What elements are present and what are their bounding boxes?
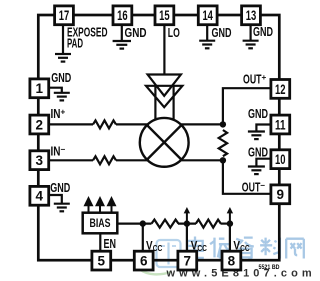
pin 9 <box>271 185 290 204</box>
wire mixer out bottom <box>180 159 223 161</box>
svg-text:14: 14 <box>202 8 213 23</box>
ground pin 4 <box>49 195 70 211</box>
bias arrow 3 <box>111 205 113 213</box>
op-amp LO buffer (double triangle) <box>146 75 182 121</box>
BIAS box <box>83 213 118 234</box>
svg-text:8: 8 <box>228 254 236 269</box>
ground pin 11 <box>248 125 271 140</box>
wire IN- to mixer <box>116 159 149 161</box>
resistor R4 <box>152 220 179 228</box>
pin 13 <box>242 6 261 25</box>
wire riser pin 8 <box>229 224 231 252</box>
watermark book logo <box>140 240 181 274</box>
svg-text:7: 7 <box>184 254 192 269</box>
svg-text:4: 4 <box>36 189 44 204</box>
svg-text:EN: EN <box>104 237 117 251</box>
svg-text:GND: GND <box>51 71 71 85</box>
bias arrow 1 <box>85 198 115 212</box>
svg-text:GND: GND <box>253 25 273 39</box>
wire OUT+ to pin 12 <box>223 88 271 124</box>
arrow up at pin7 node <box>186 213 188 224</box>
svg-text:16: 16 <box>117 8 128 23</box>
svg-text:6: 6 <box>140 254 148 269</box>
wire bias rail <box>117 223 151 225</box>
wire IN+ to mixer <box>116 123 149 125</box>
ground pin 16 <box>113 25 131 49</box>
pin 3 <box>30 151 49 170</box>
svg-text:12: 12 <box>275 82 286 97</box>
pin 1 <box>30 79 49 98</box>
wire mixer out top <box>180 123 223 125</box>
svg-text:GND: GND <box>125 26 147 40</box>
pin 7 <box>178 251 197 270</box>
ground pin 14 <box>199 25 215 49</box>
wire riser pin 6 <box>142 224 144 252</box>
pin 12 <box>271 80 290 99</box>
wire LO from pin 15 <box>163 25 165 75</box>
wire riser pin 7 <box>186 224 188 252</box>
resistor R3 load (vertical) <box>219 130 227 156</box>
wire IN- from pin 3 <box>49 159 93 161</box>
svg-text:GND: GND <box>248 145 268 159</box>
svg-text:1: 1 <box>36 81 44 96</box>
pin 4 <box>30 186 49 205</box>
pin 16 <box>113 6 132 25</box>
wire rail mid <box>178 223 196 225</box>
pin 17 <box>55 6 74 25</box>
svg-text:GND: GND <box>50 181 70 195</box>
watermark chinese characters (drawn as paths) <box>187 237 303 261</box>
ground pin 1 <box>49 88 70 101</box>
ground pin 13 <box>243 25 259 49</box>
svg-text:11: 11 <box>275 117 286 132</box>
svg-text:GND: GND <box>212 26 232 40</box>
pin 15 <box>155 6 174 25</box>
node junction pin7 <box>184 220 190 226</box>
svg-text:5: 5 <box>98 254 106 269</box>
resistor R2 on IN- <box>93 156 116 164</box>
svg-text:BIAS: BIAS <box>90 218 111 230</box>
resistor R5 <box>196 220 221 228</box>
wire OUT- to pin 9 <box>223 160 271 194</box>
svg-text:13: 13 <box>246 8 257 23</box>
svg-text:PAD: PAD <box>67 37 83 51</box>
pin 11 <box>271 115 290 134</box>
svg-text:GND: GND <box>248 107 268 121</box>
svg-text:5521 BD: 5521 BD <box>259 264 280 271</box>
resistor R1 on IN+ <box>93 120 116 128</box>
pin 5 <box>92 251 111 270</box>
IC package outline <box>38 15 279 260</box>
svg-text:17: 17 <box>59 8 70 23</box>
svg-text:9: 9 <box>277 187 285 202</box>
svg-text:15: 15 <box>159 8 170 23</box>
node junction pin8 <box>227 220 233 226</box>
pin 6 <box>134 251 153 270</box>
pin 2 <box>30 115 49 134</box>
wire IN+ from pin 2 <box>49 123 93 125</box>
mixer U1 circle with X <box>140 118 189 167</box>
bias arrow 2 <box>99 205 101 213</box>
node junction bottom <box>220 157 226 163</box>
arrow up at pin8 node <box>229 213 231 224</box>
node junction pin6 <box>140 220 146 226</box>
pin 8 <box>222 251 241 270</box>
svg-text:10: 10 <box>275 152 286 167</box>
pin 10 <box>271 150 290 169</box>
svg-text:LO: LO <box>168 26 180 40</box>
wire EN riser pin 5 to BIAS <box>99 233 101 251</box>
ground exposed pad (pin 17) <box>55 25 71 62</box>
node junction top <box>220 121 226 127</box>
pin 14 <box>198 6 217 25</box>
svg-text:3: 3 <box>36 153 44 168</box>
ground pin 10 <box>248 159 271 174</box>
wire rail end <box>221 223 230 225</box>
svg-text:2: 2 <box>36 117 44 132</box>
